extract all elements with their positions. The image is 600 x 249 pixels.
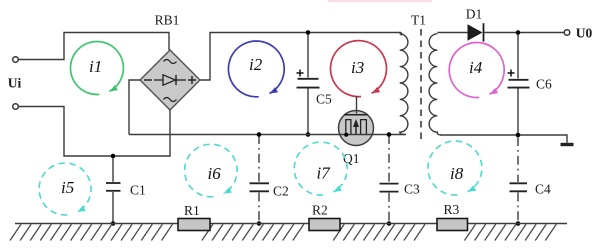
- transistor Q1: [339, 96, 374, 146]
- svg-text:C6: C6: [536, 77, 552, 92]
- svg-text:i8: i8: [450, 164, 464, 183]
- node C3 ground: [387, 221, 392, 226]
- svg-text:i7: i7: [317, 164, 332, 183]
- terminal Ui bottom: [13, 104, 19, 110]
- wire secondary top to D1: [437, 32, 467, 34]
- terminal U0: [564, 30, 570, 36]
- loop i7: [294, 142, 347, 195]
- svg-text:i6: i6: [208, 164, 222, 183]
- svg-text:Ui: Ui: [8, 76, 22, 91]
- svg-text:R1: R1: [184, 203, 200, 218]
- svg-text:T1: T1: [411, 13, 426, 28]
- diode D1: [468, 23, 484, 41]
- ground plane line: [15, 223, 567, 225]
- loop i4: [449, 43, 504, 98]
- bridge rectifier RB1: [140, 50, 200, 110]
- pink artifact bar top: [328, 0, 432, 2]
- capacitor C4: [510, 137, 552, 224]
- resistor R3: [437, 219, 468, 231]
- node secondary bottom / C4 top: [516, 133, 521, 138]
- capacitor C2: [250, 135, 289, 224]
- node C1 top: [111, 154, 116, 159]
- transformer T1 secondary winding: [429, 34, 441, 135]
- svg-text:D1: D1: [466, 7, 483, 22]
- svg-text:C4: C4: [535, 182, 551, 197]
- node C1 ground: [111, 221, 116, 226]
- svg-text:i1: i1: [89, 57, 102, 76]
- transformer T1 primary winding: [400, 34, 408, 135]
- node C5 bottom: [306, 132, 311, 137]
- bottom rail wire RB1- to primary bottom: [129, 134, 406, 136]
- node C2 ground: [257, 221, 262, 226]
- svg-text:i4: i4: [469, 58, 483, 77]
- svg-text:C1: C1: [130, 183, 146, 198]
- svg-text:C5: C5: [316, 92, 332, 107]
- svg-text:i2: i2: [249, 55, 263, 74]
- wire primary top corner: [399, 33, 402, 36]
- capacitor C1: [106, 156, 146, 224]
- svg-text:U0: U0: [576, 26, 593, 41]
- svg-text:R2: R2: [312, 203, 328, 218]
- capacitor C3: [380, 135, 421, 224]
- capacitor C6: [508, 33, 553, 136]
- svg-text:i3: i3: [351, 58, 364, 77]
- loop i3: [330, 41, 386, 97]
- ground bar right: [561, 143, 574, 146]
- transformer T1 core: [420, 29, 422, 143]
- ground plane hatching: [10, 224, 556, 240]
- loop i5: [39, 163, 91, 215]
- resistor R1: [178, 219, 210, 231]
- resistor R2: [309, 219, 340, 231]
- node C6 top: [516, 30, 521, 35]
- svg-text:R3: R3: [444, 202, 460, 217]
- wire top-left rail from Ui+ to RB1 top: [19, 33, 170, 60]
- loop i1: [70, 42, 123, 95]
- svg-text:Q1: Q1: [343, 151, 360, 166]
- svg-text:C3: C3: [404, 182, 420, 197]
- svg-text:i5: i5: [61, 178, 74, 197]
- node C2 top: [257, 132, 262, 137]
- node C4 ground: [516, 221, 521, 226]
- node C5 top: [306, 30, 311, 35]
- wire RB1 plus up to top rail 2: [200, 33, 401, 81]
- wire bottom-left from Ui- to RB1 bottom: [19, 107, 171, 157]
- terminal Ui top: [13, 57, 19, 63]
- capacitor C5: [297, 33, 333, 135]
- loop i2: [228, 41, 284, 97]
- wire secondary bottom rail: [440, 135, 567, 143]
- node C3 top: [387, 132, 392, 137]
- wire RB1 minus to bottom rail: [129, 80, 140, 135]
- loop i6: [185, 144, 238, 197]
- node Q1 source: [344, 133, 348, 137]
- svg-text:RB1: RB1: [155, 13, 180, 28]
- wire D1 to output: [484, 32, 565, 34]
- loop i8: [428, 141, 482, 195]
- svg-text:C2: C2: [273, 184, 289, 199]
